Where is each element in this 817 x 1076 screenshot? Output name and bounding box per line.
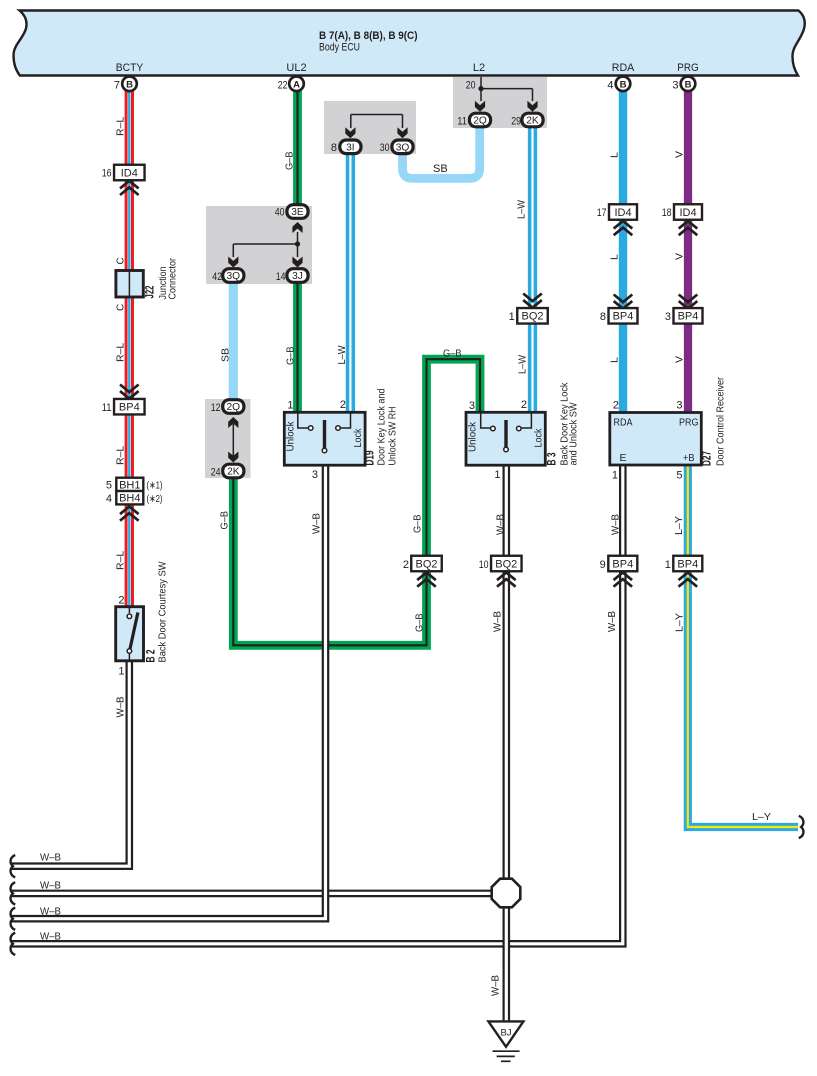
svg-text:1: 1 — [665, 559, 671, 571]
svg-text:PRG: PRG — [677, 62, 699, 74]
svg-text:SB: SB — [220, 348, 232, 362]
svg-text:L2: L2 — [473, 62, 485, 74]
svg-text:2Q: 2Q — [473, 116, 487, 127]
svg-text:1: 1 — [612, 470, 618, 482]
svg-text:2K: 2K — [227, 467, 240, 478]
svg-text:BJ: BJ — [500, 1028, 511, 1039]
svg-text:3Q: 3Q — [396, 142, 410, 153]
svg-text:BP4: BP4 — [678, 311, 699, 323]
svg-text:BQ2: BQ2 — [521, 311, 543, 323]
svg-text:Unlock SW RH: Unlock SW RH — [387, 407, 399, 466]
svg-text:W–B: W–B — [40, 852, 61, 864]
svg-text:V: V — [674, 151, 686, 158]
svg-text:Unlock: Unlock — [284, 421, 296, 452]
svg-text:B: B — [620, 79, 627, 90]
svg-text:7: 7 — [114, 80, 120, 92]
svg-text:2: 2 — [521, 399, 527, 411]
svg-text:B: B — [126, 79, 133, 90]
svg-text:RDA: RDA — [614, 417, 633, 429]
svg-text:2K: 2K — [526, 116, 539, 127]
svg-text:L–Y: L–Y — [673, 516, 685, 535]
svg-text:3: 3 — [312, 469, 318, 481]
svg-text:Lock: Lock — [352, 428, 364, 448]
svg-text:3: 3 — [665, 311, 671, 323]
svg-text:9: 9 — [600, 559, 606, 571]
svg-text:40: 40 — [275, 207, 285, 219]
svg-text:W–B: W–B — [492, 611, 504, 632]
svg-text:R–L: R–L — [114, 343, 126, 362]
svg-text:12: 12 — [211, 402, 221, 414]
svg-text:17: 17 — [597, 207, 607, 219]
svg-text:W–B: W–B — [610, 514, 622, 535]
svg-text:18: 18 — [662, 207, 672, 219]
svg-text:2: 2 — [403, 559, 409, 571]
svg-text:5: 5 — [106, 480, 112, 492]
svg-text:20: 20 — [466, 80, 476, 92]
svg-text:5: 5 — [676, 470, 682, 482]
svg-text:8: 8 — [600, 311, 606, 323]
svg-text:22: 22 — [278, 80, 288, 92]
svg-text:W–B: W–B — [40, 906, 61, 918]
svg-text:ID4: ID4 — [121, 167, 138, 179]
svg-text:ID4: ID4 — [614, 207, 631, 219]
svg-text:R–L: R–L — [114, 117, 126, 136]
svg-text:+B: +B — [683, 452, 695, 464]
svg-text:W–B: W–B — [311, 513, 323, 534]
svg-text:30: 30 — [380, 142, 390, 154]
svg-text:42: 42 — [212, 271, 222, 283]
svg-text:2Q: 2Q — [227, 402, 241, 413]
svg-text:1: 1 — [287, 400, 293, 412]
svg-text:V: V — [674, 253, 686, 260]
svg-text:2: 2 — [613, 400, 619, 412]
svg-text:3J: 3J — [292, 271, 303, 282]
svg-text:1: 1 — [494, 469, 500, 481]
svg-text:L–Y: L–Y — [674, 613, 686, 632]
svg-text:B 3: B 3 — [547, 453, 559, 466]
svg-text:Connector: Connector — [167, 258, 179, 300]
svg-text:3I: 3I — [346, 142, 355, 153]
svg-text:BP4: BP4 — [677, 558, 698, 570]
svg-text:L–Y: L–Y — [752, 811, 771, 823]
svg-text:R–L: R–L — [114, 446, 126, 465]
svg-text:B: B — [685, 79, 692, 90]
svg-text:BP4: BP4 — [613, 311, 634, 323]
svg-text:G–B: G–B — [412, 515, 424, 534]
svg-text:ID4: ID4 — [679, 207, 696, 219]
svg-text:C: C — [116, 304, 127, 311]
svg-text:BQ2: BQ2 — [415, 558, 437, 570]
svg-text:14: 14 — [276, 271, 286, 283]
svg-text:G–B: G–B — [414, 614, 426, 633]
svg-text:E: E — [620, 452, 627, 464]
svg-text:L: L — [609, 357, 621, 363]
svg-text:W–B: W–B — [114, 697, 126, 718]
svg-text:BQ2: BQ2 — [495, 558, 517, 570]
svg-text:1: 1 — [509, 311, 515, 323]
svg-text:3: 3 — [672, 80, 678, 92]
svg-text:16: 16 — [102, 168, 112, 180]
svg-text:3Q: 3Q — [227, 271, 241, 282]
svg-text:W–B: W–B — [490, 975, 502, 996]
svg-text:UL2: UL2 — [286, 62, 306, 74]
svg-text:BH4: BH4 — [119, 493, 140, 505]
svg-text:Door Control Receiver: Door Control Receiver — [715, 377, 727, 466]
svg-text:G–B: G–B — [219, 511, 231, 530]
svg-text:W–B: W–B — [495, 514, 507, 535]
svg-text:Back Door Courtesy SW: Back Door Courtesy SW — [157, 561, 169, 662]
svg-text:L: L — [609, 152, 621, 158]
svg-text:1: 1 — [118, 666, 124, 678]
svg-text:4: 4 — [106, 493, 112, 505]
svg-text:2: 2 — [340, 399, 346, 411]
svg-text:Body ECU: Body ECU — [319, 42, 360, 54]
svg-text:4: 4 — [607, 80, 613, 92]
svg-text:2: 2 — [118, 595, 124, 607]
svg-text:3E: 3E — [291, 207, 304, 218]
svg-text:10: 10 — [479, 559, 489, 571]
svg-text:8: 8 — [331, 142, 337, 154]
svg-text:G–B: G–B — [285, 347, 297, 366]
svg-text:11: 11 — [102, 402, 112, 414]
svg-text:J22: J22 — [145, 286, 157, 299]
svg-text:BH1: BH1 — [119, 479, 140, 491]
svg-text:L–W: L–W — [336, 345, 348, 364]
svg-text:V: V — [674, 356, 686, 363]
svg-text:D27: D27 — [702, 451, 714, 466]
svg-text:B 7(A), B 8(B), B 9(C): B 7(A), B 8(B), B 9(C) — [319, 30, 418, 42]
svg-text:BP4: BP4 — [612, 558, 633, 570]
svg-text:11: 11 — [457, 116, 467, 128]
svg-text:G–B: G–B — [284, 152, 296, 171]
svg-text:(∗2): (∗2) — [147, 493, 163, 505]
svg-text:29: 29 — [511, 116, 521, 128]
svg-text:SB: SB — [433, 163, 448, 175]
svg-text:C: C — [116, 257, 127, 264]
svg-text:R–L: R–L — [114, 551, 126, 570]
svg-text:W–B: W–B — [40, 931, 61, 943]
svg-text:RDA: RDA — [612, 62, 635, 74]
svg-text:G–B: G–B — [443, 348, 462, 360]
svg-text:Lock: Lock — [533, 428, 545, 448]
svg-text:W–B: W–B — [40, 880, 61, 892]
svg-text:and Unlock SW: and Unlock SW — [568, 402, 580, 465]
svg-text:L: L — [609, 254, 621, 260]
svg-text:PRG: PRG — [679, 417, 699, 429]
svg-text:W–B: W–B — [606, 611, 618, 632]
svg-text:BP4: BP4 — [119, 402, 140, 414]
svg-text:3: 3 — [676, 400, 682, 412]
svg-text:A: A — [293, 79, 300, 90]
svg-text:24: 24 — [211, 467, 221, 479]
svg-text:BCTY: BCTY — [116, 62, 144, 74]
svg-text:3: 3 — [469, 400, 475, 412]
svg-text:Unlock: Unlock — [467, 421, 479, 452]
svg-text:(∗1): (∗1) — [147, 480, 163, 492]
svg-text:L–W: L–W — [517, 355, 529, 374]
svg-text:L–W: L–W — [516, 200, 528, 219]
